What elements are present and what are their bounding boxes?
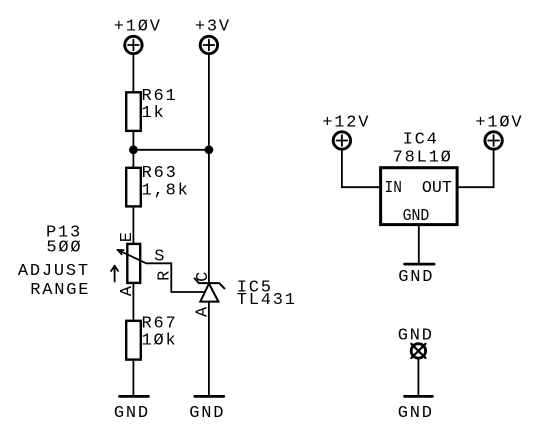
wire [133,149,209,151]
supply +3V [195,18,231,54]
wire wiper to REF [146,263,205,292]
svg-text:+1ØV: +1ØV [114,18,162,37]
wire [342,149,381,187]
svg-text:GND: GND [398,404,434,423]
wire [208,302,210,396]
ground GND left [114,396,150,423]
svg-text:5ØØ: 5ØØ [46,239,82,258]
svg-text:E: E [118,232,137,242]
svg-text:1,8k: 1,8k [142,181,190,200]
test point GND cross [411,344,425,358]
svg-text:A: A [118,285,137,296]
svg-text:GND: GND [398,268,434,287]
svg-text:TL431: TL431 [237,291,297,310]
resistor R61 [126,87,177,131]
svg-text:1k: 1k [142,104,166,123]
svg-text:R61: R61 [142,87,178,106]
svg-text:ADJUST: ADJUST [18,262,90,281]
ground GND middle [189,396,225,423]
shunt regulator IC5 TL431 [195,278,225,301]
svg-text:GND: GND [114,404,150,423]
svg-text:1Øk: 1Øk [142,332,178,351]
svg-text:+1ØV: +1ØV [475,114,523,133]
wire [208,150,210,283]
ground GND bottom right [398,396,434,423]
wire [417,358,419,395]
regulator IC4 78L10 [381,131,458,225]
wire [132,283,134,321]
svg-text:+3V: +3V [195,18,231,37]
ground IC4 [398,264,434,287]
wire [132,206,134,244]
supply +10V [114,18,162,54]
supply +12V [322,114,370,150]
potentiometer P13 [118,244,147,283]
wire [457,149,494,187]
svg-text:GND: GND [403,206,430,225]
svg-text:+12V: +12V [322,114,370,133]
svg-text:GND: GND [398,326,434,345]
wire [132,131,134,168]
wire [132,54,134,92]
junction node B [205,145,214,154]
svg-text:78L1Ø: 78L1Ø [393,149,453,168]
wire [132,360,134,396]
svg-text:IC4: IC4 [403,131,439,150]
wire GND pin [418,225,420,264]
resistor R67 [126,315,177,360]
supply +10V right [475,114,523,150]
label IC5 TL431 [237,278,297,309]
svg-text:IN: IN [385,178,402,197]
resistor R63 [126,164,189,206]
svg-text:RANGE: RANGE [30,281,90,300]
label P13 500 ADJUST RANGE [18,223,90,299]
svg-text:C: C [194,272,213,282]
adjust arrow [111,266,118,282]
wire [208,54,210,150]
svg-text:OUT: OUT [422,179,452,198]
svg-text:GND: GND [189,404,225,423]
junction node A [129,145,138,154]
